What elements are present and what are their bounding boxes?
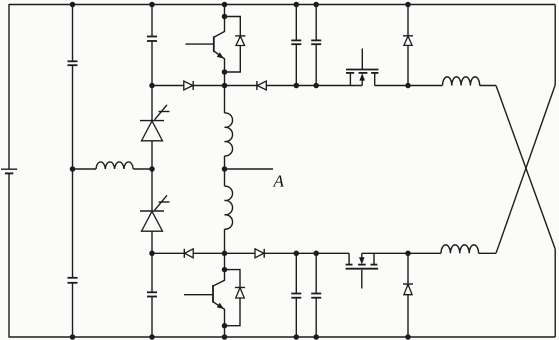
wire: row y85 right end <box>480 85 496 87</box>
wire: row y253 from M2 to right <box>362 252 441 254</box>
wire: column x72 lower <box>72 283 74 337</box>
inductor L3 (lower half of center leg) <box>225 186 233 229</box>
capacitor C4 <box>147 292 157 296</box>
wire: row y253 to MOSFET M2 <box>264 252 349 254</box>
wire: column x224 top to IGBT split node <box>224 5 226 17</box>
wire: column x224 to upper diode row <box>224 72 226 113</box>
capacitor C3 <box>147 37 157 42</box>
wire: top rail <box>9 4 556 6</box>
wire: column x152 below VS2 <box>151 231 153 292</box>
wire: column x152 bottom <box>151 297 153 338</box>
wire: column x152 top <box>151 5 153 37</box>
capacitor C2 <box>68 278 78 283</box>
diode D7 (points right) <box>255 249 264 258</box>
node: Q2 branch junctions <box>222 267 228 329</box>
wire: right edge bottom vertical <box>554 249 556 337</box>
diode D2 (antiparallel of Q2) <box>225 270 246 326</box>
wire: row y253 right end <box>479 252 496 254</box>
wire: crossover diagonal B (top-right to bottom inductor) <box>496 85 555 253</box>
wire: crossover diagonal A (top inductor to bottom-right) <box>496 86 555 250</box>
inductor L2 (upper half of center leg) <box>225 113 233 156</box>
node: bottom rail junctions <box>70 334 411 340</box>
wire: bottom rail <box>9 336 556 338</box>
wire: row y253 middle segment <box>193 252 255 254</box>
thyristor VS2 <box>140 195 170 231</box>
capacitor C5 column x296 top <box>291 5 301 86</box>
transistor Q2 (IGBT) <box>184 270 225 326</box>
inductor L1 horizontal <box>73 162 153 169</box>
battery E1 <box>1 169 17 173</box>
capacitor C6 column x316 top <box>311 5 321 86</box>
capacitor C1 <box>68 61 78 65</box>
wire: column x224 to tap <box>224 156 226 186</box>
thyristor VS1 <box>140 105 170 141</box>
MOSFET M1 <box>346 49 379 86</box>
wire: tap to terminal A <box>225 168 274 170</box>
diode D3 (points right) <box>184 81 193 90</box>
wire: row y85 to MOSFET M1 <box>266 85 362 87</box>
wire: column x152 to thyristor VS1 <box>151 41 153 121</box>
wire: column x224 bottom <box>224 326 226 337</box>
wire: row y85 left segment <box>152 85 184 87</box>
diode D8 column x408 bottom <box>403 253 413 337</box>
capacitor C8 column x316 bottom <box>311 253 321 337</box>
diode D4 (points left) <box>257 81 266 90</box>
node: upper diode row junctions <box>149 83 411 89</box>
inductor L5 <box>441 245 479 253</box>
transistor Q1 (IGBT) <box>186 17 225 73</box>
diode D1 (antiparallel of Q1) <box>225 17 246 73</box>
node: lower diode row junctions <box>149 251 411 256</box>
wire: row y85 from M1 to right <box>375 85 443 87</box>
capacitor C7 column x296 bottom <box>291 253 301 337</box>
wire: row y253 left segment <box>152 252 184 254</box>
diode D6 (points left) <box>184 249 193 258</box>
wire: row y85 middle segment <box>193 85 257 87</box>
wire: left edge upper segment <box>8 5 10 170</box>
inductor L4 <box>443 77 480 86</box>
wire: right edge top vertical <box>554 5 556 86</box>
node: Q1 branch junctions <box>222 14 228 75</box>
wire: left edge lower segment <box>8 173 10 337</box>
wire: column x72 upper <box>72 5 74 62</box>
node: mid-row junctions <box>70 166 228 172</box>
wire: column x72 middle <box>72 65 74 278</box>
svg-text:A: A <box>273 172 285 191</box>
wire: column x152 between thyristors <box>151 141 153 211</box>
diode D5 column x408 top <box>403 5 413 86</box>
wire: column x224 to lower diode row <box>224 229 226 270</box>
MOSFET M2 <box>346 253 379 288</box>
node: top rail junctions <box>70 2 411 8</box>
